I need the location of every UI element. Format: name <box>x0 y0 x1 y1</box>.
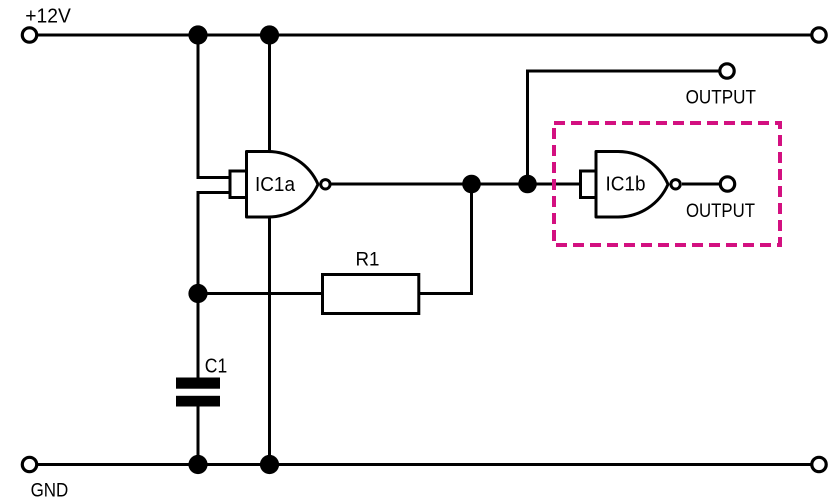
terminal GND left <box>22 457 36 471</box>
junction output node B <box>518 175 537 194</box>
wire IC1a input 2 to RC node <box>198 193 231 294</box>
wire IC1a GND pin <box>268 216 271 465</box>
NAND gate IC1b <box>581 152 681 218</box>
wire IC1b output <box>682 183 719 186</box>
junction GND node A <box>188 455 207 474</box>
capacitor C1 <box>176 356 227 407</box>
svg-text:IC1b: IC1b <box>606 174 646 196</box>
svg-text:R1: R1 <box>356 249 380 271</box>
junction output node A <box>462 175 481 194</box>
terminal +12V left <box>22 28 36 42</box>
resistor R1 <box>323 249 419 314</box>
svg-text:C1: C1 <box>205 356 227 378</box>
wire IC1a output bus <box>332 183 581 186</box>
NAND gate IC1a <box>230 152 330 218</box>
junction GND node B <box>260 455 279 474</box>
junction RC node <box>188 284 207 303</box>
svg-text:IC1a: IC1a <box>255 174 296 196</box>
terminal bottom rail right <box>812 457 826 471</box>
svg-text:OUTPUT: OUTPUT <box>686 200 755 222</box>
terminal OUTPUT top <box>720 64 734 78</box>
wire +12V rail to IC1a input 1 <box>198 35 231 178</box>
svg-text:OUTPUT: OUTPUT <box>686 87 756 109</box>
junction top rail node A <box>188 25 207 44</box>
wire C1 to GND rail <box>197 406 200 465</box>
dashed option box <box>554 123 780 245</box>
wire RC node to C1 <box>197 294 200 379</box>
wire RC node to R1 <box>198 292 324 295</box>
wire output node to OUTPUT terminal top <box>528 71 719 184</box>
wire top rail <box>38 34 811 37</box>
wire IC1a VCC pin <box>268 35 271 153</box>
wire feedback output to R1 <box>419 184 472 294</box>
junction top rail node B <box>260 25 279 44</box>
terminal top rail right <box>812 28 826 42</box>
terminal OUTPUT bottom <box>720 177 734 191</box>
svg-text:+12V: +12V <box>25 5 71 28</box>
wire bottom rail <box>38 463 811 466</box>
svg-text:GND: GND <box>31 480 69 502</box>
